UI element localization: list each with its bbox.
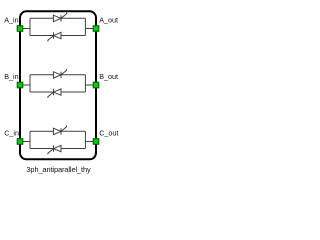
svg-text:C_out: C_out bbox=[99, 129, 118, 138]
svg-text:A_in: A_in bbox=[4, 15, 18, 24]
svg-text:3ph_antiparallel_thy: 3ph_antiparallel_thy bbox=[26, 165, 91, 174]
svg-text:B_out: B_out bbox=[99, 72, 118, 81]
svg-text:C_in: C_in bbox=[4, 128, 19, 137]
svg-text:B_in: B_in bbox=[4, 72, 18, 81]
svg-text:A_out: A_out bbox=[99, 16, 118, 25]
